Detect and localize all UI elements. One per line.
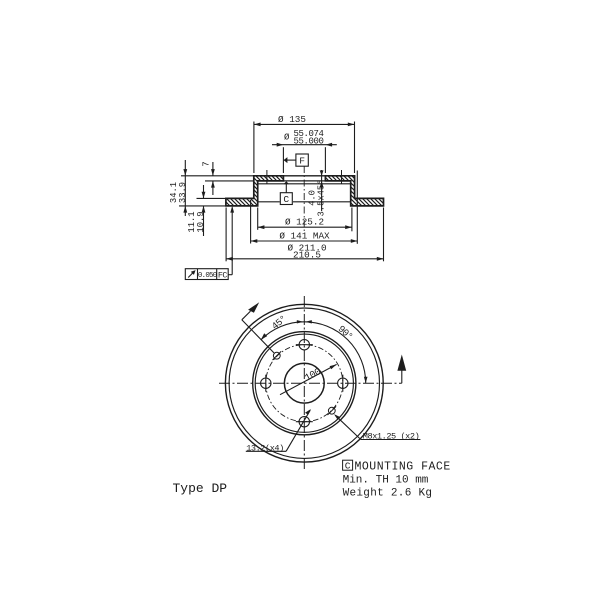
FRONT VIEW <box>219 296 420 471</box>
M8 hole upper-left <box>273 351 282 360</box>
dimension Ø55.074/55.000 <box>272 143 337 173</box>
dimension 11.1/10.9 <box>197 185 226 236</box>
flange lines across bore <box>283 176 325 181</box>
weight note <box>343 487 433 499</box>
vertical centerline <box>303 296 305 471</box>
bolt hole top <box>296 340 313 350</box>
label M8x1.25 (x2) <box>334 414 420 439</box>
bolt hole right <box>338 375 348 392</box>
svg-text:100: 100 <box>303 366 323 384</box>
datum flag C mounting face <box>280 181 292 204</box>
svg-text:55.000: 55.000 <box>294 136 324 146</box>
hat outer circle <box>253 332 356 435</box>
rotation arrow right <box>397 355 406 384</box>
M8 hole lower-right <box>328 406 337 415</box>
svg-text:Ø 125.2: Ø 125.2 <box>285 217 324 228</box>
svg-text:45°: 45° <box>270 313 289 332</box>
mounting face note <box>343 460 451 473</box>
outer chamfer circle <box>229 308 379 458</box>
SECTION VIEW <box>169 114 384 281</box>
90deg arc dimension <box>304 320 367 383</box>
disc outer circle <box>225 304 383 462</box>
radial extension line 135deg <box>242 320 274 353</box>
svg-text:Type DP: Type DP <box>173 481 228 496</box>
svg-text:Ø: Ø <box>284 133 290 143</box>
recess edge ticks <box>267 170 342 184</box>
runout feature control frame <box>185 269 228 280</box>
right body outline <box>325 176 383 206</box>
svg-text:Ø 135: Ø 135 <box>278 114 306 125</box>
right body hatched (flange+wall+rotor) <box>325 176 383 206</box>
left body outline <box>226 176 284 206</box>
min thickness note <box>343 474 429 486</box>
dimension 34.1/33.9 <box>179 160 226 216</box>
hat inner circle <box>255 334 353 432</box>
svg-text:MOUNTING FACE: MOUNTING FACE <box>355 461 451 474</box>
svg-text:10.9: 10.9 <box>196 211 206 232</box>
dimension 4.0/3.5x45 chamfer <box>320 170 324 211</box>
center bore circle <box>284 363 324 403</box>
svg-text:0.050: 0.050 <box>198 272 217 280</box>
bolt circle dash-dot <box>266 345 343 422</box>
horizontal centerline <box>219 382 402 384</box>
svg-text:Weight 2.6 Kg: Weight 2.6 Kg <box>343 487 433 499</box>
rotation arrow top-left <box>242 302 259 320</box>
svg-text:Min. TH 10 mm: Min. TH 10 mm <box>343 474 429 486</box>
dimension Ø135 <box>254 122 355 174</box>
far-side projected line <box>258 201 351 203</box>
dimension Ø141 MAX <box>251 171 358 244</box>
section centerline <box>303 166 305 232</box>
runout leader <box>228 206 234 275</box>
dimension 7 <box>181 162 254 195</box>
svg-text:M8x1.25 (x2): M8x1.25 (x2) <box>363 431 420 441</box>
datum flag F <box>284 154 309 166</box>
svg-text:C: C <box>345 461 351 472</box>
svg-text:13.2(x4): 13.2(x4) <box>246 443 284 453</box>
label Type DP <box>173 481 228 496</box>
dimension Ø125.2 <box>258 208 352 232</box>
dimension 100 PCD <box>280 364 337 394</box>
svg-text:C: C <box>283 194 289 205</box>
svg-text:Ø 141 MAX: Ø 141 MAX <box>279 231 330 242</box>
svg-text:3.5x45°: 3.5x45° <box>316 180 326 217</box>
svg-text:90°: 90° <box>336 323 355 342</box>
svg-text:210.5: 210.5 <box>293 250 321 261</box>
dimension Ø211.0/210.5 <box>226 208 383 262</box>
svg-text:7: 7 <box>202 161 212 166</box>
svg-text:33.9: 33.9 <box>178 182 188 203</box>
bolt hole bottom <box>296 417 313 427</box>
hat underside recess line <box>258 183 351 185</box>
left body hatched (flange+wall+rotor) <box>226 176 284 206</box>
label 13.2 (x4) <box>246 409 311 451</box>
svg-text:FC: FC <box>218 271 228 281</box>
45deg arc dimension <box>261 320 304 340</box>
bolt hole left <box>261 375 271 392</box>
svg-text:F: F <box>299 156 305 167</box>
